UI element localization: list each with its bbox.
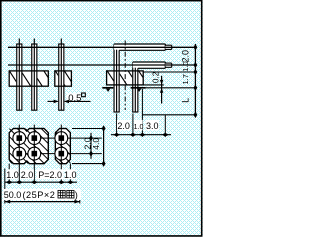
- svg-text:1.0: 1.0: [134, 124, 144, 131]
- pin square col3 row1: [59, 135, 65, 141]
- body outline (side view): [107, 71, 144, 85]
- pin square col3 row2: [59, 151, 65, 157]
- pin hole circle col1 row1: [13, 132, 26, 145]
- svg-text:3.0: 3.0: [146, 121, 159, 131]
- dimension 0.2 standoff: [143, 84, 164, 86]
- svg-text:1.0: 1.0: [6, 170, 19, 180]
- column 3 center line: [60, 125, 62, 183]
- connector body (side view): [107, 71, 144, 85]
- dimension line 50.0: [5, 201, 80, 203]
- row center lines (bottom view): [13, 137, 102, 139]
- svg-text:L: L: [180, 98, 190, 103]
- bottom view body (right section): [55, 129, 70, 164]
- standoff foot right: [131, 87, 146, 89]
- pin hole circle col2 row2: [28, 147, 41, 160]
- pin 1 (front view): [16, 44, 22, 110]
- pin 2 (front view): [31, 44, 37, 110]
- svg-text:1.0: 1.0: [64, 170, 77, 180]
- pin row 1 vertical section (side view): [114, 44, 120, 112]
- pin row 2 horizontal section: [133, 63, 166, 68]
- column 1 center line: [18, 125, 20, 183]
- connector body (front view, left section): [9, 71, 48, 86]
- dimension line pitch row: [5, 181, 77, 183]
- svg-text:(25P×2: (25P×2: [23, 190, 56, 200]
- pin row 2 tip: [165, 64, 171, 67]
- wire lower row center line: [8, 64, 195, 66]
- center line (side view axis): [124, 41, 126, 111]
- svg-text:): ): [75, 190, 78, 200]
- dimension 2.0 row pitch (bottom view): [90, 133, 92, 159]
- pin square col2 row1: [32, 135, 38, 141]
- svg-text:P=2.0: P=2.0: [38, 170, 62, 180]
- standoff foot left: [102, 87, 113, 89]
- extension lines bottom dims: [8, 164, 10, 184]
- pin row 1 tip: [165, 46, 171, 49]
- svg-text:2.0: 2.0: [117, 121, 130, 131]
- dimension 0.5 square (pin cross-section): [67, 93, 81, 100]
- label 50.0 (25P x2 linked): [3, 189, 81, 200]
- dimension 4.0 body width (bottom view): [72, 128, 105, 130]
- wire upper row center line: [8, 46, 195, 48]
- pin square col2 row2: [32, 151, 38, 157]
- pin row 2 vertical section (side view): [132, 62, 138, 112]
- svg-text:1.0: 1.0: [181, 61, 190, 71]
- border frame: [1, 1, 202, 236]
- svg-text:2.0: 2.0: [21, 170, 34, 180]
- svg-text:0.5: 0.5: [68, 93, 81, 104]
- pin row 1 horizontal section: [114, 45, 165, 50]
- connector body (front view, right section after break): [55, 71, 72, 86]
- pin square col1 row2: [17, 151, 23, 157]
- vertical dimension chain (right): [143, 71, 195, 73]
- pin 3 (front view): [58, 44, 64, 110]
- bottom view body (left section): [9, 129, 48, 164]
- body outline (right section): [55, 71, 72, 86]
- pin square col1 row1: [17, 135, 23, 141]
- svg-text:1.7: 1.7: [181, 74, 190, 84]
- pin hole circle col3 row1: [55, 132, 68, 145]
- column 2 center line: [33, 125, 35, 183]
- pin hole circle col3 row2: [55, 147, 68, 160]
- bottom view outline left: [9, 129, 48, 164]
- svg-text:0.2: 0.2: [151, 71, 160, 83]
- extension lines side-view bottom dims: [116, 114, 118, 137]
- body outline (left section): [9, 71, 48, 86]
- dimension line side-view pitches: [111, 134, 171, 136]
- svg-text:4.0: 4.0: [91, 138, 101, 150]
- svg-text:50.0: 50.0: [4, 190, 22, 200]
- pin hole circle col2 row1: [28, 132, 41, 145]
- bottom view outline right: [55, 129, 70, 164]
- svg-text:2.0: 2.0: [180, 50, 190, 63]
- pin hole circle col1 row2: [13, 147, 26, 160]
